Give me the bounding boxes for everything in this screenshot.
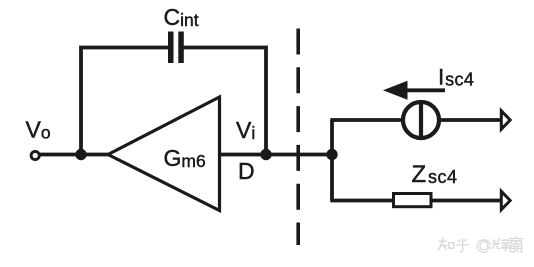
wire feedback-loop left: junction A up and across to Cint left plate — [81, 48, 169, 157]
wire top branch right: current source to output port — [441, 118, 502, 122]
svg-text:Vi: Vi — [236, 117, 255, 143]
dashed partition line — [296, 29, 300, 246]
svg-text:Isc4: Isc4 — [438, 65, 474, 90]
output port arrow (top, hollow) — [501, 111, 510, 129]
output port arrow (bottom, hollow) — [501, 191, 510, 209]
wire bottom branch left: node B to Zsc4 box — [330, 199, 392, 203]
svg-text:Cint: Cint — [164, 4, 199, 30]
arrow current direction (left-pointing) — [405, 88, 446, 92]
terminal Vo (open circle) — [31, 151, 39, 159]
wire feedback-loop right: Cint right plate across and down to node D — [184, 48, 267, 157]
wire bottom branch right: Zsc4 box to output port — [432, 199, 503, 203]
wire vertical bus at node B — [330, 120, 334, 201]
node D junction dot — [260, 149, 271, 160]
wire top branch left: node B to current source — [330, 118, 401, 122]
watermark 知乎 @辉霸 (drawn strokes, light gray) — [439, 237, 523, 253]
svg-text:Zsc4: Zsc4 — [412, 161, 458, 188]
capacitor Cint plates — [168, 32, 184, 64]
wire output: op-amp output through node D to node B — [220, 153, 333, 157]
op-amp Gm6 (left-pointing transconductor triangle) — [108, 97, 220, 211]
current source Isc4 (circle with bar) — [403, 102, 439, 138]
svg-text:D: D — [238, 158, 255, 184]
node A junction dot — [75, 149, 86, 160]
impedance Zsc4 box — [394, 194, 432, 207]
svg-text:Vo: Vo — [26, 117, 51, 143]
wire input: terminal Vo to op-amp apex — [39, 153, 110, 157]
node B junction dot — [326, 149, 337, 160]
